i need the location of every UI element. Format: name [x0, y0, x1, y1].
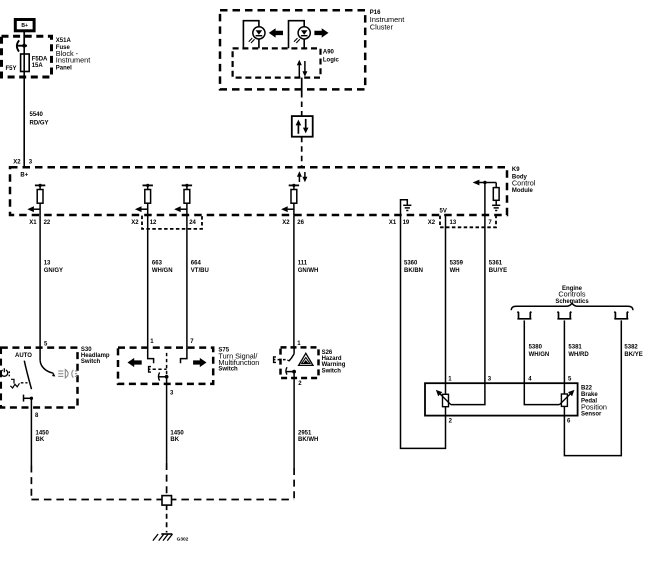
wire 13 GN/GY [40, 215, 63, 347]
svg-text:26: 26 [297, 220, 304, 226]
right turn arrow in S75 [193, 358, 206, 367]
svg-text:Logic: Logic [323, 57, 340, 63]
battery positive B+ terminal box [15, 20, 34, 31]
svg-text:X1: X1 [29, 220, 37, 226]
svg-text:GN/GY: GN/GY [44, 268, 63, 274]
svg-text:12: 12 [150, 220, 157, 226]
dashed wire to ground bus [30, 466, 32, 500]
wiper feed from pin 4 [524, 383, 559, 404]
svg-text:Brake: Brake [581, 392, 598, 398]
body control module K9 box [10, 167, 507, 215]
svg-text:22: 22 [44, 220, 51, 226]
svg-text:Module: Module [512, 188, 534, 194]
wiper feed from pin 3 [451, 383, 485, 404]
svg-text:13: 13 [450, 220, 457, 226]
svg-text:Sensor: Sensor [581, 412, 602, 418]
BCM internal ground at pin X1 19 [401, 200, 412, 216]
BCM driver output pin X2 12 [135, 184, 153, 216]
svg-text:111: 111 [298, 260, 308, 266]
svg-text:Cluster: Cluster [370, 23, 394, 32]
logic module A90 box [233, 48, 321, 77]
svg-text:BU/YE: BU/YE [489, 268, 507, 274]
svg-text:B22: B22 [581, 386, 593, 392]
pin 3 wire 1450 BK [167, 377, 185, 463]
svg-text:F5DA: F5DA [32, 56, 48, 62]
svg-text:A90: A90 [323, 50, 335, 56]
svg-text:5382: 5382 [624, 345, 638, 351]
serial data arrows inside A90 [297, 60, 308, 77]
svg-text:S26: S26 [322, 350, 333, 356]
pin number labels top [448, 377, 572, 383]
svg-text:5359: 5359 [450, 260, 464, 266]
svg-text:WH/GN: WH/GN [529, 352, 550, 358]
wire 5381 WH/RD [564, 320, 589, 383]
svg-text:5380: 5380 [529, 345, 543, 351]
svg-text:Controls: Controls [558, 290, 586, 299]
wire 5380 WH/GN [524, 320, 549, 383]
svg-text:19: 19 [403, 220, 410, 226]
svg-text:AUTO: AUTO [15, 353, 32, 359]
label A90 Logic [323, 50, 340, 64]
svg-text:Hazard: Hazard [322, 356, 342, 362]
pin 8 wire 1450 BK [31, 398, 49, 465]
svg-text:RD/GY: RD/GY [30, 120, 49, 126]
hazard triangle symbol [299, 353, 313, 365]
svg-text:Control: Control [512, 179, 536, 188]
svg-text:WH/GN: WH/GN [152, 268, 173, 274]
right turn indicator lamp [289, 21, 311, 49]
svg-text:Panel: Panel [56, 66, 72, 72]
moving contact [286, 367, 296, 374]
svg-text:2951: 2951 [298, 430, 312, 436]
svg-text:5381: 5381 [568, 345, 582, 351]
svg-text:X2: X2 [131, 220, 139, 226]
svg-text:15A: 15A [32, 63, 44, 69]
svg-text:BK/WH: BK/WH [298, 437, 318, 443]
serial data gateway symbol [292, 116, 313, 137]
left turn arrow in S75 [128, 358, 142, 367]
left contact hook from pin 1 [148, 348, 154, 364]
switch lever from pin 1 [287, 347, 294, 361]
hazard warning switch S26 box [281, 347, 319, 378]
svg-text:BK: BK [170, 437, 179, 443]
connector to engine controls 1 [517, 312, 531, 319]
label Engine Controls Schematics [555, 286, 589, 305]
svg-text:VT/BU: VT/BU [191, 268, 209, 274]
svg-text:WH: WH [450, 268, 460, 274]
wire 5361 BU/YE [485, 215, 507, 383]
svg-text:5V: 5V [440, 208, 447, 214]
mechanical link E [149, 367, 167, 373]
svg-text:13: 13 [44, 260, 51, 266]
label P16 Instrument Cluster [370, 10, 404, 31]
svg-text:Position: Position [581, 402, 607, 411]
pin labels along BCM bottom [29, 220, 492, 226]
svg-text:F5Y: F5Y [6, 66, 17, 72]
instrument cluster P16 box [220, 10, 365, 89]
right turn arrow symbol [314, 28, 328, 37]
svg-text:5360: 5360 [404, 260, 418, 266]
BCM driver output pin X2 26 [281, 184, 299, 216]
svg-text:G302: G302 [177, 536, 189, 542]
headlamp beam icon [58, 370, 77, 378]
brake pedal position sensor B22 box [425, 383, 578, 415]
dashed lead to ground [166, 505, 168, 532]
potentiometer 2 [560, 383, 575, 415]
svg-text:5540: 5540 [30, 112, 44, 118]
parking lamp icon [10, 379, 19, 388]
svg-text:663: 663 [152, 260, 163, 266]
potentiometer 1 [436, 383, 451, 415]
svg-text:WH/RD: WH/RD [568, 352, 589, 358]
ground bus dashed wire [31, 499, 294, 501]
ground G302 [153, 534, 189, 542]
connector to engine controls 2 [557, 312, 571, 319]
AUTO selector lever [24, 361, 31, 390]
svg-text:X1: X1 [389, 220, 397, 226]
dashed wire to ground bus [293, 468, 295, 500]
svg-text:X2: X2 [428, 220, 436, 226]
switch pole lever [166, 353, 168, 377]
svg-text:Switch: Switch [218, 366, 238, 372]
wire 5360 BK/BN [401, 215, 446, 448]
switch contact [24, 395, 34, 402]
svg-text:X2: X2 [13, 160, 21, 166]
label X51A Fuse Block - Instrument Panel [56, 38, 90, 72]
BCM driver output pin 24 [174, 184, 192, 216]
svg-text:5361: 5361 [489, 260, 503, 266]
svg-text:K9: K9 [512, 167, 520, 173]
svg-text:1450: 1450 [170, 430, 184, 436]
headlamp switch S30 box [1, 348, 78, 408]
label S30 Headlamp Switch [81, 347, 110, 365]
svg-text:BK/BN: BK/BN [404, 268, 423, 274]
turn signal switch S75 box [118, 348, 213, 384]
svg-text:BK: BK [36, 437, 45, 443]
moving contact [158, 372, 168, 380]
svg-text:BK/YE: BK/YE [624, 352, 642, 358]
svg-text:Switch: Switch [81, 359, 101, 365]
fuse F5DA 15A [21, 46, 48, 78]
dashed wire to ground junction [166, 463, 168, 496]
label S26 Hazard Warning Switch [322, 350, 346, 375]
svg-text:24: 24 [189, 220, 196, 226]
svg-text:Switch: Switch [322, 368, 342, 374]
wire 5359 WH [446, 215, 464, 383]
fuse block X51A dashed box [2, 36, 52, 77]
wire from B+ into fuse block [23, 31, 25, 46]
pin number labels bottom [449, 419, 571, 425]
svg-text:B+: B+ [20, 173, 28, 179]
wire 663 WH/GN [148, 215, 173, 347]
svg-text:1450: 1450 [36, 430, 50, 436]
power off icon [1, 368, 9, 376]
splice junction [162, 496, 172, 506]
connector terminal at fuse [17, 40, 27, 51]
left turn arrow symbol [269, 28, 283, 37]
wire 664 VT/BU [187, 215, 209, 347]
connector sub-box X2 pins 12 24 [142, 216, 202, 229]
BCM driver output pin X1 22 [27, 184, 45, 216]
svg-text:Warning: Warning [322, 362, 346, 368]
brace to engine controls [511, 303, 633, 310]
wire 5382 BK/YE [564, 320, 642, 455]
svg-text:X2: X2 [282, 220, 290, 226]
svg-text:GN/WH: GN/WH [298, 268, 319, 274]
right contact hook from pin 7 [181, 348, 187, 364]
connector sub-box X2 pins 13 7 [440, 216, 496, 228]
wire 5540 RD/GY [24, 77, 48, 167]
wire 111 GN/WH [294, 215, 318, 347]
left turn indicator lamp [243, 21, 265, 49]
pin 2 wire 2951 BK/WH [294, 372, 318, 468]
pin X2 3 of BCM [13, 160, 33, 166]
label K9 Body Control Module [512, 167, 536, 194]
svg-text:Instrument: Instrument [56, 56, 90, 65]
serial data wire gateway to BCM [301, 137, 303, 167]
switch lever from pin 5 [40, 348, 54, 376]
svg-text:664: 664 [191, 260, 202, 266]
svg-text:B+: B+ [21, 23, 28, 29]
mechanical link dashes [21, 382, 28, 384]
svg-text:X51A: X51A [56, 38, 72, 44]
serial data wire cluster to gateway [301, 78, 303, 116]
mechanical link E [274, 357, 286, 363]
label S75 Turn Signal Multifunction Switch [218, 348, 259, 373]
label B22 Brake Pedal Position Sensor [581, 386, 607, 418]
BCM pull-down and sense at pin 7 [473, 180, 501, 216]
serial data arrows inside BCM [297, 171, 308, 182]
connector to engine controls 3 [614, 312, 628, 319]
